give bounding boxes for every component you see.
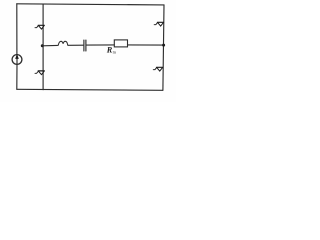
- label Rm value text: [106, 46, 117, 55]
- capacitor C1 right plate: [85, 40, 87, 51]
- wire right edge: [163, 5, 164, 90]
- wire top rail: [17, 4, 164, 5]
- wire bottom rail: [17, 89, 163, 90]
- current source I1 arrowhead: [15, 54, 19, 59]
- wire left edge lower segment: [16, 64, 18, 89]
- wire capacitor-to-resistor: [87, 44, 115, 46]
- thyristor VD3 (top-right): [154, 22, 163, 26]
- node B junction dot (right middle): [162, 44, 165, 47]
- current source I1 circle: [12, 55, 22, 65]
- wire left edge upper segment: [16, 4, 18, 55]
- inductor L1: [57, 41, 68, 45]
- thyristor VD2 (bottom-left): [35, 71, 44, 75]
- thyristor VD4 (bottom-right): [153, 67, 162, 71]
- capacitor C1 left plate: [83, 40, 85, 51]
- wire left inner branch: [42, 4, 44, 90]
- wire middle left segment: [42, 44, 57, 46]
- thyristor VD1 (top-left): [35, 25, 44, 29]
- wire inductor-to-capacitor: [69, 44, 83, 46]
- current source I1 arrow shaft: [16, 57, 18, 65]
- resistor Rm box: [114, 40, 127, 47]
- node A junction dot (left middle): [41, 44, 44, 47]
- wire resistor-to-right-edge: [128, 44, 164, 46]
